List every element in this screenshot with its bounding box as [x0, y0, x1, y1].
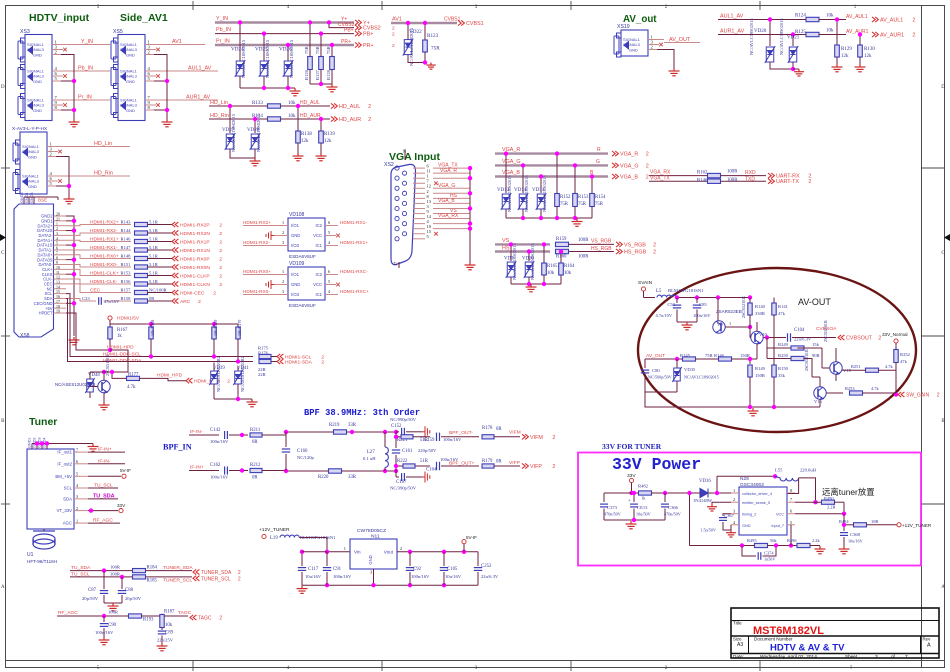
svg-text:C159: C159 — [424, 438, 435, 443]
svg-text:0R: 0R — [252, 476, 258, 481]
svg-text:TAGC: TAGC — [198, 616, 212, 622]
svg-text:100R: 100R — [578, 238, 589, 243]
wire XS8 pin to R158 row — [66, 298, 88, 301]
svg-text:HDTV_input: HDTV_input — [29, 12, 90, 24]
wire below R152 — [556, 207, 558, 219]
wire Pr_IN rail — [215, 44, 354, 46]
svg-text:75R: 75R — [326, 45, 331, 54]
wire below VD22 — [408, 55, 425, 63]
resistor R169 10k — [213, 324, 215, 327]
svg-text:HS_RGB: HS_RGB — [591, 246, 612, 252]
wire pin1 node up — [716, 476, 718, 493]
arrow HD_AUL — [331, 103, 337, 108]
svg-text:5.1R: 5.1R — [149, 219, 159, 224]
svg-text:15: 15 — [56, 290, 60, 294]
svg-text:R496: R496 — [787, 538, 797, 543]
svg-text:VIFP: VIFP — [509, 460, 520, 466]
svg-text:VCC: VCC — [313, 282, 322, 287]
svg-text:2SCR523EB: 2SCR523EB — [823, 320, 828, 342]
svg-text:R251: R251 — [851, 364, 861, 369]
wire VD16 — [699, 492, 701, 494]
svg-text:10k: 10k — [564, 271, 572, 276]
svg-text:PR+: PR+ — [341, 39, 351, 45]
RCA jack XS3 section 3 — [18, 94, 33, 118]
pin 5 stub — [325, 284, 336, 286]
svg-text:R167: R167 — [117, 328, 128, 333]
svg-text:Tuner: Tuner — [29, 416, 57, 428]
svg-text:NC/AVLC18S02015: NC/AVLC18S02015 — [779, 18, 784, 55]
wire BPF bottom rail — [286, 470, 396, 472]
svg-text:R159: R159 — [556, 237, 567, 242]
svg-text:C90: C90 — [108, 623, 117, 628]
wire gnd pin3 — [373, 569, 375, 585]
svg-text:100R: 100R — [727, 178, 738, 183]
ground for X-AV3 — [64, 196, 75, 204]
wire R141 bottom — [773, 315, 775, 365]
TVS diode VD35 — [676, 359, 678, 368]
arrow VIFM — [522, 434, 528, 439]
wire VCC pin6 — [795, 513, 844, 515]
svg-text:5.1R: 5.1R — [149, 279, 159, 284]
wire V9 collector — [717, 298, 719, 321]
wire to VD21 — [792, 35, 794, 47]
svg-text:PB+: PB+ — [344, 28, 354, 34]
capacitor C105 10u/16V — [443, 552, 445, 566]
wire R169 down — [213, 339, 215, 357]
svg-text:2SAR523EB: 2SAR523EB — [716, 309, 742, 314]
capacitor C160 NC/120p — [285, 432, 287, 447]
capacitor C89 22n/25V — [161, 628, 163, 631]
XS2 ground bus — [469, 168, 471, 262]
wire R170 down — [237, 339, 239, 362]
svg-text:XS2: XS2 — [384, 162, 394, 168]
wire R490 out — [835, 501, 845, 503]
ground C87/C88 — [104, 602, 122, 604]
svg-text:HDMI-CEC: HDMI-CEC — [180, 291, 205, 297]
wire from rail to R127 — [320, 34, 322, 56]
svg-text:GND: GND — [368, 555, 373, 564]
wire SVAIN down — [643, 291, 645, 298]
resistor R220 33R — [329, 469, 342, 473]
svg-text:R127: R127 — [315, 69, 320, 80]
connector XS8 HDMI — [14, 204, 54, 337]
wire to C152 — [396, 431, 399, 433]
svg-text:4: 4 — [56, 237, 58, 241]
svg-text:HDMI1-RX0-: HDMI1-RX0- — [243, 289, 270, 294]
net ARC stub — [88, 300, 96, 302]
ground — [626, 521, 637, 529]
pins 1,3,2 of XS5 — [145, 44, 161, 46]
svg-text:R158: R158 — [121, 296, 132, 301]
wire R249 out — [798, 347, 823, 349]
resistor R154 75R — [590, 194, 595, 207]
svg-text:NC/AVLC18S02015: NC/AVLC18S02015 — [542, 175, 547, 212]
sideways ground C167 — [422, 472, 430, 483]
wire XS8 pin to R148 row — [66, 255, 88, 259]
capacitor C252 22u/6.3V — [477, 552, 479, 566]
svg-text:C92: C92 — [413, 567, 422, 572]
svg-text:R153: R153 — [578, 195, 589, 200]
svg-text:90R: 90R — [812, 353, 821, 358]
svg-text:10k: 10k — [547, 271, 555, 276]
svg-text:20p/50V: 20p/50V — [82, 596, 99, 601]
wire 5V rail — [109, 320, 111, 324]
svg-text:NC/AVLC18S02015: NC/AVLC18S02015 — [231, 113, 236, 152]
svg-text:HD_Rin: HD_Rin — [210, 113, 229, 119]
svg-text:10k: 10k — [165, 623, 173, 628]
svg-text:UART-TX: UART-TX — [776, 179, 799, 185]
svg-text:2: 2 — [653, 250, 656, 256]
svg-text:GND: GND — [291, 233, 300, 238]
wire R134 to arrow — [281, 118, 330, 120]
resistor R170 10k — [237, 324, 239, 327]
wire R193 out — [142, 615, 189, 617]
wire V9 base — [725, 326, 750, 328]
wire R156 to arrow — [148, 283, 173, 285]
svg-text:GND: GND — [126, 79, 135, 84]
svg-text:AV_AUR1: AV_AUR1 — [880, 33, 904, 39]
svg-text:2: 2 — [219, 274, 222, 280]
svg-text:VD16: VD16 — [699, 479, 711, 484]
svg-text:1: 1 — [76, 518, 78, 523]
ground bus VD39/VD41 — [214, 398, 252, 400]
svg-text:R164: R164 — [564, 264, 575, 269]
wire CVBS2 branch — [329, 23, 354, 28]
capacitor C87 20p/50V — [103, 571, 105, 589]
ground — [316, 153, 327, 161]
wire 33V down — [631, 483, 633, 493]
svg-text:C104: C104 — [794, 328, 805, 333]
frame fold marks — [0, 234, 6, 241]
pins 4,6,5 of XS5 — [145, 70, 161, 72]
svg-text:2: 2 — [392, 43, 395, 49]
wire to R139 — [320, 119, 322, 131]
svg-text:timing_2: timing_2 — [742, 513, 756, 517]
wire top rail to L55 — [717, 475, 775, 477]
svg-text:3: 3 — [875, 654, 878, 660]
wire below VD24 — [239, 76, 241, 88]
svg-text:A3: A3 — [737, 642, 743, 648]
wire below R123 — [424, 52, 426, 63]
svg-text:TUNER_SDA: TUNER_SDA — [201, 570, 232, 576]
resistor R160 100R — [556, 249, 569, 253]
wire R496 to ground — [810, 545, 820, 547]
svg-text:GND: GND — [33, 79, 42, 84]
svg-text:330R: 330R — [755, 311, 766, 316]
ground — [297, 586, 308, 594]
wire R140 R141 tops — [749, 298, 751, 304]
wire base — [90, 386, 98, 388]
svg-text:2: 2 — [238, 570, 241, 576]
svg-text:R156: R156 — [121, 279, 132, 284]
svg-text:2: 2 — [219, 282, 222, 288]
N29 pin 6 — [787, 513, 795, 515]
wire below R165 — [543, 275, 545, 284]
svg-text:75R: 75R — [431, 46, 440, 52]
svg-text:75R: 75R — [595, 202, 604, 207]
svg-text:33R: 33R — [348, 423, 357, 428]
wire HDMI1-DDC-SCL — [66, 294, 100, 357]
wire XS8 pin to R143 row — [66, 225, 88, 226]
svg-text:2: 2 — [552, 435, 555, 441]
svg-text:L19: L19 — [270, 536, 278, 541]
svg-text:2: 2 — [321, 360, 324, 366]
arrow AV_AUR1 — [872, 32, 878, 37]
X-AV3 ground wire — [56, 157, 69, 197]
pin 6 net HDMI1-RX1- — [325, 225, 338, 227]
resistor R141 47k — [773, 298, 775, 304]
svg-text:2: 2 — [213, 291, 216, 297]
title block — [731, 608, 939, 658]
arrow HDMI-CEC — [172, 290, 178, 295]
wire R140 bottom to V10 base — [749, 315, 751, 338]
wire from rail to R126 — [309, 23, 311, 57]
svg-text:PR+: PR+ — [363, 43, 374, 49]
arrow HDMI_HPD — [186, 378, 192, 383]
wire R494 leads — [844, 524, 854, 526]
svg-text:AV_AUL1: AV_AUL1 — [846, 14, 868, 20]
arrow HDMI1-CLKP — [172, 273, 178, 278]
svg-text:A: A — [941, 585, 945, 590]
svg-text:100n/16V: 100n/16V — [411, 574, 430, 579]
ground — [682, 322, 693, 330]
svg-text:R147: R147 — [121, 245, 132, 250]
wire C162 to R212 — [229, 470, 248, 472]
capacitor C374 1n/50V — [742, 546, 756, 557]
svg-text:12: 12 — [56, 276, 60, 280]
svg-text:HDMI1-RX0P: HDMI1-RX0P — [180, 257, 210, 263]
svg-text:10k: 10k — [826, 29, 834, 34]
svg-text:VS_RGB: VS_RGB — [624, 242, 646, 248]
ground for XS8 — [69, 337, 80, 345]
wire R495-R496 — [768, 545, 798, 547]
svg-text:BLM18PG181SN1: BLM18PG181SN1 — [668, 288, 704, 293]
svg-text:0R: 0R — [496, 460, 502, 465]
svg-text:GND1: GND1 — [28, 437, 32, 448]
svg-text:GND5: GND5 — [20, 192, 24, 203]
svg-text:75R: 75R — [315, 45, 320, 54]
wire below R164 — [560, 275, 562, 284]
svg-text:VIFM: VIFM — [509, 430, 521, 436]
svg-text:2: 2 — [227, 379, 230, 385]
wire 5V rail av-out — [676, 297, 750, 299]
svg-text:12k: 12k — [864, 54, 872, 59]
wire R178 out — [494, 436, 520, 438]
wire R148 to arrow — [148, 258, 173, 260]
N29 pin 7 — [787, 501, 795, 503]
svg-text:IF-IN+: IF-IN+ — [190, 465, 204, 471]
svg-text:VGA_B: VGA_B — [620, 175, 638, 181]
ground rail av-out left — [645, 391, 677, 393]
svg-text:150R: 150R — [755, 373, 766, 378]
wire to VD9 — [510, 244, 512, 261]
svg-text:16: 16 — [56, 295, 60, 299]
resistor R139 12k — [319, 131, 324, 143]
svg-text:HD_AUL: HD_AUL — [300, 100, 320, 106]
capacitor C85 100n/16V — [696, 298, 698, 304]
svg-text:SDA: SDA — [63, 497, 72, 502]
svg-text:R211: R211 — [250, 428, 261, 433]
svg-text:C117: C117 — [308, 567, 319, 572]
svg-text:VGA_G: VGA_G — [620, 163, 639, 169]
ground — [99, 637, 110, 645]
wire below R139 — [320, 143, 322, 153]
svg-text:11: 11 — [56, 271, 60, 275]
svg-text:GND: GND — [126, 53, 135, 58]
ground — [572, 219, 583, 227]
svg-text:Vout: Vout — [384, 550, 394, 555]
svg-text:HDMI1-RX2P: HDMI1-RX2P — [180, 223, 210, 229]
N29 pin 4 — [731, 524, 739, 526]
svg-text:C164: C164 — [426, 468, 437, 473]
svg-text:IF_out1: IF_out1 — [57, 450, 72, 455]
arrow VGA_B — [612, 174, 618, 179]
wire to VD28 — [254, 119, 256, 133]
svg-text:5.1R: 5.1R — [149, 270, 159, 275]
svg-text:10: 10 — [56, 266, 60, 270]
svg-text:2SCR523EB: 2SCR523EB — [804, 349, 809, 371]
svg-text:emitter_sense_5: emitter_sense_5 — [742, 501, 770, 505]
wire to VD10 — [528, 252, 530, 262]
svg-text:SW_GAIN: SW_GAIN — [906, 393, 929, 399]
wire Y_IN rail — [215, 21, 354, 23]
svg-text:2: 2 — [646, 175, 649, 181]
wire rail to VD14 — [522, 165, 524, 193]
svg-text:GND: GND — [126, 108, 135, 113]
svg-text:5V-IF: 5V-IF — [120, 468, 131, 473]
arrow CVBS2 — [355, 25, 361, 30]
svg-text:5: 5 — [76, 472, 78, 477]
svg-text:3: 3 — [282, 240, 284, 245]
wire C142 to R211 — [229, 434, 248, 436]
svg-text:10u/16V: 10u/16V — [848, 539, 863, 544]
wire RXD — [721, 175, 766, 177]
svg-text:HDMI1-RX2+: HDMI1-RX2+ — [243, 220, 271, 225]
svg-text:I/O1: I/O1 — [291, 223, 300, 228]
svg-text:X-AV3-L-Y-P-HX: X-AV3-L-Y-P-HX — [12, 126, 48, 132]
svg-text:R250: R250 — [778, 353, 789, 358]
svg-text:R143: R143 — [121, 219, 132, 224]
capacitor C162 — [225, 467, 228, 475]
wire R252 bottom junction — [895, 363, 897, 394]
svg-text:HDTV & AV & TV: HDTV & AV & TV — [770, 643, 845, 654]
svg-text:3: 3 — [282, 289, 284, 294]
svg-text:12k: 12k — [324, 139, 332, 144]
wire R159 out — [569, 243, 614, 245]
arrow HD_AUR — [331, 116, 337, 121]
svg-text:NC/AVLC18S02015: NC/AVLC18S02015 — [524, 175, 529, 212]
ground for XS3 — [69, 119, 80, 127]
svg-text:AUL1_AV: AUL1_AV — [720, 14, 744, 20]
svg-text:2: 2 — [646, 152, 649, 158]
svg-text:5: 5 — [790, 520, 792, 525]
svg-text:L5: L5 — [656, 289, 662, 294]
svg-text:NC/AVLC18S02015: NC/AVLC18S02015 — [289, 39, 294, 78]
svg-text:C167: C167 — [396, 480, 407, 485]
svg-text:GND: GND — [33, 108, 42, 113]
svg-text:Side_AV1: Side_AV1 — [120, 12, 168, 24]
wire XS8 pin to R153 row — [66, 269, 88, 275]
svg-text:100n/16V: 100n/16V — [95, 630, 114, 635]
ground bus for VD24-VD26 — [240, 87, 295, 89]
svg-text:17: 17 — [393, 262, 398, 266]
pin 5 stub — [325, 235, 336, 237]
wire TU_SDA — [70, 570, 132, 572]
capacitor C368 10u/16V — [843, 525, 845, 531]
svg-text:Rev: Rev — [923, 637, 932, 642]
svg-text:R219: R219 — [329, 423, 340, 428]
resistor R193 — [129, 614, 142, 618]
pins 7,9,8 of XS5 — [145, 99, 161, 101]
wire below VD39 — [213, 384, 215, 399]
wire R133 to arrow — [281, 105, 330, 107]
svg-text:10u/50V: 10u/50V — [636, 512, 651, 517]
wire V10 collector — [756, 322, 758, 331]
XS2 pin stubs — [413, 168, 425, 239]
svg-text:R151: R151 — [121, 262, 132, 267]
svg-text:220p/50V: 220p/50V — [418, 448, 437, 453]
wire VD48 — [89, 372, 91, 379]
wire R253 to SW_GAIN — [863, 392, 897, 394]
svg-text:V9: V9 — [717, 322, 723, 327]
svg-text:470n/50V: 470n/50V — [604, 512, 621, 517]
svg-text:L55: L55 — [775, 468, 783, 473]
ground — [99, 402, 110, 410]
svg-text:HDMI1-RX0+: HDMI1-RX0+ — [243, 269, 271, 274]
wire HDMI1-DDC-SDA — [66, 298, 100, 361]
svg-text:1: 1 — [733, 488, 735, 493]
svg-text:6: 6 — [56, 247, 58, 251]
svg-text:2: 2 — [733, 497, 735, 502]
svg-text:10k: 10k — [288, 101, 296, 106]
resistor R185 — [133, 575, 146, 579]
wire below VD25 — [263, 76, 265, 88]
ground — [293, 153, 304, 161]
U1 top ground wire — [32, 443, 93, 445]
svg-text:2SCR523EB: 2SCR523EB — [741, 296, 746, 318]
svg-text:2: 2 — [238, 576, 241, 582]
svg-text:C53: C53 — [667, 302, 675, 307]
svg-text:NC/AVLC18S02015: NC/AVLC18S02015 — [265, 39, 270, 78]
wire R177 out — [140, 377, 165, 379]
svg-text:GND4: GND4 — [25, 192, 29, 203]
svg-text:NC/390p/50V: NC/390p/50V — [390, 486, 417, 491]
svg-text:R252: R252 — [900, 352, 911, 357]
svg-text:HDMI1/5V: HDMI1/5V — [117, 316, 140, 322]
arrow VGA_G — [612, 163, 618, 168]
svg-text:NC/ASES12U020R3: NC/ASES12U020R3 — [55, 382, 96, 387]
svg-text:5V-IF: 5V-IF — [466, 535, 477, 540]
svg-text:33V: 33V — [117, 503, 126, 508]
wire to R129 — [836, 20, 838, 46]
wire BPF top rail — [286, 431, 352, 433]
svg-text:0R: 0R — [149, 296, 155, 301]
wire AUL1_AV — [718, 19, 806, 21]
wire below VD35 — [676, 381, 678, 392]
power 5V-IF — [88, 475, 121, 477]
power 33V — [88, 510, 118, 512]
svg-text:1: 1 — [729, 321, 731, 326]
svg-text:1n50V: 1n50V — [764, 557, 775, 562]
svg-text:5.1R: 5.1R — [149, 253, 159, 258]
wire R167 down — [109, 339, 111, 350]
svg-text:HS_RGB: HS_RGB — [624, 250, 647, 256]
svg-text:BPF_IN: BPF_IN — [163, 443, 192, 452]
svg-text:2: 2 — [56, 227, 58, 231]
wire to R494 — [843, 514, 845, 525]
wire R146 to arrow — [148, 241, 173, 243]
svg-text:R150: R150 — [778, 366, 789, 371]
